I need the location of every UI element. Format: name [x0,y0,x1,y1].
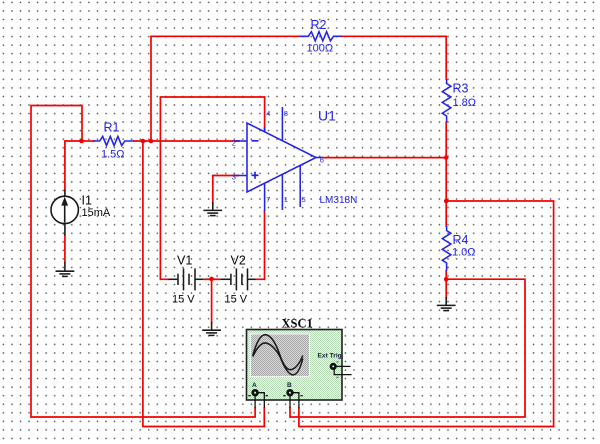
wire V- supply : V1 negative up, across, down to pin 4 [160,97,264,279]
wire R3/R4 mid segment to R4 top [445,201,447,226]
scope channel A terminal [253,390,258,395]
svg-text:Ext Trig: Ext Trig [318,353,342,360]
junction node at battery midpoint [209,277,214,282]
wire I1 bottom to ground [64,236,66,263]
scope trace waveform [253,335,303,370]
svg-text:15mA: 15mA [82,207,111,219]
svg-text:R2: R2 [311,18,327,32]
svg-text:100Ω: 100Ω [307,43,334,55]
wire R1 left lead [82,140,95,142]
svg-text:A: A [252,382,257,389]
wire op-amp output to R3/R4 node [323,157,447,159]
resistor R3 [442,79,451,122]
svg-text:7: 7 [266,195,270,204]
svg-text:3: 3 [232,173,236,182]
resistor R1 [93,136,134,145]
op-amp U1 [234,107,323,211]
junction node at R1 right / A- tap [141,139,146,144]
ground (R4 bottom) [437,297,456,311]
wire battery midpoint to ground [211,279,213,322]
wire I1 top branch [65,141,82,190]
scope channel B terminal [288,390,293,395]
junction node at R1 left [79,139,84,144]
svg-text:1.0Ω: 1.0Ω [452,247,476,259]
ground (op-amp pin 3) [203,202,222,216]
wire R2 feedback net : up over the top and down to R3 [151,36,300,141]
resistor R2 [300,32,342,41]
wire battery midpoint to V2 negative [212,278,221,280]
svg-text:4: 4 [266,109,270,118]
wire net A- : from node at R1 right down and to scope channel A- [143,141,264,427]
battery V2 [220,268,255,290]
wire R3 bottom segment [445,122,447,201]
svg-text:8: 8 [284,109,288,118]
battery V1 [169,268,204,290]
svg-text:1.8Ω: 1.8Ω [453,97,477,109]
svg-text:U1: U1 [318,108,336,124]
svg-text:XSC1: XSC1 [282,317,313,331]
junction node at R3/R4 [444,199,449,204]
ground (I1) [56,262,75,276]
svg-text:LM318N: LM318N [320,195,358,206]
svg-text:R4: R4 [453,233,469,247]
scope Ext Trig terminal [331,364,336,369]
oscilloscope XSC1 [247,330,352,409]
wire V+ supply : V2 positive up to pin 7 [256,211,265,279]
svg-text:15 V: 15 V [225,294,248,306]
svg-text:R3: R3 [453,82,469,96]
svg-text:15 V: 15 V [172,294,195,306]
svg-text:1: 1 [284,195,288,204]
svg-text:2: 2 [232,138,236,147]
svg-text:V1: V1 [177,254,192,268]
wire V1 positive to battery midpoint [204,278,212,280]
wire net A+ : left tall loop from node A down to scope channel A+ [31,106,255,418]
wire pin 3 to ground [213,176,238,203]
junction node at op-amp output / R3 [444,155,449,160]
wire R2 right segment [342,36,446,79]
svg-text:1.5Ω: 1.5Ω [101,149,125,161]
svg-text:I1: I1 [82,194,92,208]
resistor R4 [442,226,451,271]
wire R4 bottom to ground [445,271,447,297]
ground (battery midpoint) [202,322,221,335]
wire net B- : from R4 top node right, down, to scope channel B- [299,201,554,427]
wire R1 right to op-amp pin 2 [134,140,239,142]
svg-text:6: 6 [320,155,324,164]
junction node at R4 bottom [444,277,449,282]
current source I1 [51,190,78,236]
junction node at R2 tap [149,139,154,144]
svg-text:V2: V2 [231,254,246,268]
wire net B+ : from R4 bottom node right, down, to scope channel B+ [290,279,525,417]
svg-text:5: 5 [302,195,306,204]
svg-text:B: B [287,382,292,389]
svg-text:R1: R1 [104,121,120,135]
op-amp U1 input polarity marks [252,141,259,179]
